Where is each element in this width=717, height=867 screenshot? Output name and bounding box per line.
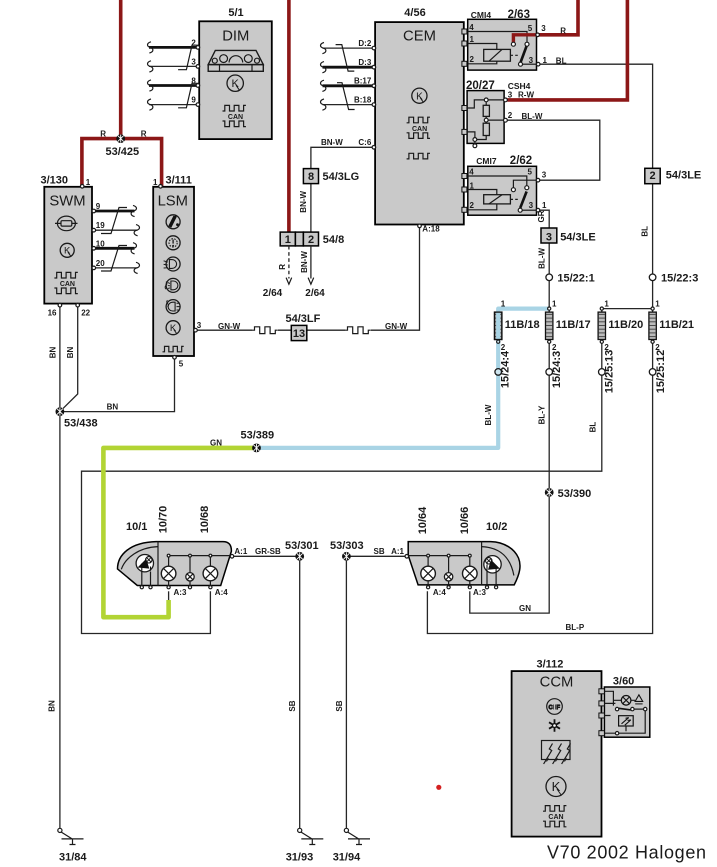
red wire R branch to SWM pin1 and LSM pin1: [82, 139, 162, 188]
wire BN from SWM pin16 through 53/438 to ground 31/84: [59, 307, 61, 828]
svg-text:11B/17: 11B/17: [556, 319, 591, 331]
svg-text:19: 19: [96, 221, 105, 230]
right lamp small pins: [447, 586, 450, 589]
SWM steering wheel icon: [55, 216, 78, 231]
svg-text:3: 3: [191, 57, 196, 66]
svg-text:20: 20: [96, 259, 105, 268]
twisted pair mark CEM D:2/D:3: [336, 45, 355, 72]
svg-text:10/2: 10/2: [486, 521, 507, 533]
svg-text:3/111: 3/111: [166, 175, 192, 187]
svg-text:54/3LG: 54/3LG: [323, 171, 360, 183]
wire to CEM pin D:2: [323, 47, 374, 49]
svg-text:54/8: 54/8: [323, 234, 344, 246]
wire SB junction 53/301 down to ground 31/93: [299, 556, 301, 828]
svg-text:2/62: 2/62: [510, 155, 532, 167]
svg-text:22: 22: [81, 308, 90, 317]
svg-text:54/3LE: 54/3LE: [560, 231, 595, 243]
right lamp pin A:4: [427, 586, 430, 589]
relay 2/63 switch arm: [521, 46, 527, 63]
svg-text:15/22:3: 15/22:3: [661, 273, 698, 285]
LSM pin 3: [194, 328, 198, 332]
arrow to 2/64 right: [308, 278, 314, 285]
relay 2/63 bottom contact to output: [523, 63, 537, 65]
twisted pair mark DIM 8/9: [178, 83, 199, 108]
CEM pin B:18: [372, 103, 376, 107]
connector 15/25:12: [649, 369, 656, 376]
relay 2/63 pin 1 square: [462, 41, 467, 46]
thick wire to CEM pin D:3: [323, 66, 374, 69]
right lamp pin A:3: [468, 586, 471, 589]
DIM instrument cluster icon: [208, 50, 263, 71]
3/60 indicator bulb: [621, 696, 631, 706]
svg-text:GN-W: GN-W: [218, 322, 241, 331]
svg-text:3: 3: [508, 91, 513, 100]
svg-text:2: 2: [470, 201, 475, 210]
svg-text:10/68: 10/68: [199, 506, 211, 534]
DIM pin 3: [196, 65, 200, 69]
twisted pair mark DIM 2/3: [178, 45, 199, 69]
svg-text:9: 9: [96, 202, 101, 211]
svg-text:1: 1: [86, 178, 91, 187]
svg-text:3: 3: [529, 56, 534, 65]
left lamp internal feed wire from A:1: [169, 556, 231, 573]
turn indicator bulb left lamp: [136, 555, 153, 572]
svg-text:2: 2: [604, 343, 609, 352]
svg-text:SB: SB: [374, 547, 385, 556]
relay 2/63 contact circles: [525, 42, 529, 46]
svg-text:3/112: 3/112: [537, 659, 564, 671]
CEM pin D:2: [372, 46, 376, 50]
relay 2/62 output3 wire to NC contact: [513, 180, 536, 188]
SWM CAN symbol: [54, 272, 77, 278]
fuse 3 54/3LE: [541, 228, 596, 244]
thick wire to CEM pin B:17: [323, 84, 374, 87]
svg-text:10/70: 10/70: [158, 506, 170, 534]
ground 31/84: [58, 828, 84, 844]
svg-text:GR: GR: [537, 210, 546, 222]
SWM K diagnostic symbol: [60, 243, 74, 257]
junction 53/389: [252, 444, 261, 453]
svg-text:CEM: CEM: [403, 29, 436, 45]
3/60 switch arm: [619, 708, 631, 710]
LSM rotary switch icon: [166, 236, 180, 250]
svg-text:3: 3: [541, 24, 546, 33]
thick wire to DIM pin 2: [149, 46, 196, 49]
3/60 internal wiring: [604, 691, 645, 733]
20/27 bottom pin: [473, 144, 477, 148]
svg-text:11B/18: 11B/18: [505, 319, 540, 331]
svg-text:3/130: 3/130: [41, 175, 69, 187]
light blue wire BL-W from 11B/17 pin1 node through 11B/18 to junction 53/389: [257, 309, 550, 448]
svg-text:15/22:1: 15/22:1: [557, 273, 594, 285]
wire BL from 11B/20 through 15/25:13 looping to left lamp A:4: [82, 340, 602, 634]
wire GR from relay 2/62 output 1 to fuse 54/3LE(3): [540, 210, 549, 228]
wire stub into 11B/18 top: [497, 309, 499, 313]
svg-text:53/303: 53/303: [330, 540, 364, 552]
wire break squiggle DIM pin3: [148, 61, 153, 72]
wire SB junction 53/303 down to ground 31/94: [345, 556, 347, 828]
wire break squiggle CEM B:18: [321, 99, 326, 110]
wire BN-W fuse 54/3LG to connector 54/8 pin2: [310, 184, 312, 233]
svg-text:2: 2: [308, 234, 314, 246]
20/27 resistor 2: [483, 123, 489, 135]
svg-text:CMI4: CMI4: [471, 10, 492, 20]
right lamp bottom pin stubs: [428, 572, 496, 585]
wire break squiggle DIM pin9: [148, 99, 153, 110]
left lamp pin A:1: [230, 555, 234, 559]
SWM pin 16: [58, 303, 62, 307]
wire GR-SB from left lamp A:1 to junction 53/301: [234, 555, 300, 557]
connector 15/25:13: [599, 369, 606, 376]
svg-text:BL: BL: [556, 56, 567, 65]
svg-text:C: C: [549, 705, 553, 711]
svg-text:53/389: 53/389: [241, 430, 275, 442]
svg-text:8: 8: [191, 77, 196, 86]
svg-text:LSM: LSM: [158, 194, 188, 210]
resistor 11B/20: [598, 312, 605, 339]
svg-text:5: 5: [528, 24, 533, 33]
DIM pin 8: [196, 84, 200, 88]
twisted pair mark CEM B:17/B:18: [337, 83, 355, 110]
CCM AC snowflake icon: [549, 719, 560, 732]
wire BL from fuse 54/3LE(2) down to 15/22:3: [652, 184, 654, 274]
svg-text:CCM: CCM: [540, 674, 574, 690]
svg-text:54/3LF: 54/3LF: [286, 313, 321, 325]
relay 2/62 output pin 1: [536, 208, 540, 212]
wire to DIM pin 9: [149, 104, 196, 106]
right lamp inner front curve: [482, 547, 514, 576]
ground 31/93: [298, 828, 324, 844]
control module SWM 3/130: [41, 175, 106, 318]
svg-text:BN-W: BN-W: [299, 190, 308, 212]
wire GN-W from LSM pin3 to A:18 of CEM: [197, 228, 419, 331]
LSM rear fog lamp icon: [166, 300, 180, 314]
relay 2/62 switch arm: [520, 192, 526, 209]
svg-text:31/94: 31/94: [333, 852, 361, 864]
svg-text:8: 8: [308, 171, 314, 183]
left lamp bottom pin stubs: [142, 572, 211, 586]
fuse 8 54/3LG: [303, 169, 359, 184]
svg-text:A:4: A:4: [433, 588, 446, 597]
headlamp unit right 10/2 with bulbs 10/64 and 10/66: [391, 506, 520, 597]
svg-text:A:18: A:18: [422, 225, 440, 234]
junction 53/425: [116, 134, 125, 143]
relay 2/63 coil circuit: [468, 44, 497, 64]
left lamp internal pin dots: [167, 554, 170, 557]
relay 2/63 pin 4 square: [462, 29, 467, 34]
relay 2/62 coil: [484, 195, 511, 204]
wire BL-W from relay 20/27 pin2 to relay 2/62 output 3: [507, 120, 600, 180]
svg-text:10: 10: [96, 239, 105, 248]
DIM CAN symbol: [223, 105, 246, 111]
wire SB from junction 53/303 to right lamp A:1: [346, 555, 406, 557]
LSM pin 1: [159, 185, 163, 189]
relay 2/62 coil circuit: [468, 190, 497, 210]
wire break squiggle SWM 9: [131, 205, 136, 216]
fuse 2 54/3LE: [645, 168, 701, 183]
svg-text:53/425: 53/425: [106, 146, 140, 158]
SWM pin 22: [76, 303, 80, 307]
relay 2/63 pin 2 square: [462, 61, 467, 66]
red wire R from top to 54/8 pin1: [287, 0, 291, 232]
stub from left lamp A:3 pin to green wire: [168, 591, 170, 600]
svg-text:GR-SB: GR-SB: [255, 547, 281, 556]
svg-text:DIM: DIM: [222, 29, 249, 45]
svg-text:2: 2: [501, 343, 506, 352]
svg-text:BL-W: BL-W: [522, 112, 543, 121]
svg-text:3: 3: [546, 232, 552, 244]
20/27 left pin squares: [462, 106, 467, 111]
wire BN from LSM pin5 to junction 53/438: [62, 359, 175, 412]
connector 15/22:3: [649, 274, 656, 281]
DIM K diagnostic symbol: [227, 75, 243, 91]
svg-text:GN: GN: [519, 604, 531, 613]
svg-text:15/25:12: 15/25:12: [655, 350, 667, 393]
svg-text:4/56: 4/56: [404, 7, 425, 19]
svg-text:1: 1: [470, 35, 475, 44]
square wave symbol on GN-W right: [345, 327, 371, 334]
relay 2/62 pin 1 square: [462, 187, 467, 192]
svg-text:2: 2: [552, 343, 557, 352]
relay 2/62 dashed actuator link: [510, 198, 520, 200]
left lamp small pins: [188, 586, 191, 589]
relay 2/62 internal wire pin4 to switch contact: [468, 176, 527, 186]
svg-text:BL-Y: BL-Y: [537, 405, 546, 424]
3/60 bottom contact: [615, 732, 618, 735]
wire BN from SWM pin22 joining 53/438: [60, 307, 78, 412]
svg-text:2: 2: [650, 170, 656, 182]
wire BN-W to 2/64 right: [310, 246, 312, 279]
svg-text:BN-W: BN-W: [321, 138, 343, 147]
svg-text:5/1: 5/1: [228, 7, 243, 19]
svg-text:4: 4: [469, 23, 474, 32]
wire break squiggle DIM pin8: [148, 80, 153, 91]
relay 2/62 CMI7: [462, 155, 547, 223]
svg-text:1: 1: [655, 300, 660, 309]
connector 15/24:4: [495, 369, 502, 376]
wire BL-W from fuse 54/3LE(3) to connector 15/22:1: [548, 243, 550, 274]
20/27 internal wiring: [467, 100, 504, 144]
svg-text:2: 2: [508, 111, 513, 120]
svg-text:3: 3: [197, 321, 202, 330]
svg-text:53/301: 53/301: [285, 540, 319, 552]
wire to DIM pin 3: [149, 65, 196, 67]
svg-text:BN: BN: [48, 700, 57, 712]
wire from 15/22:1 down to resistor branch node: [548, 281, 550, 313]
SWM pin 19: [92, 228, 96, 232]
svg-text:B:17: B:17: [354, 77, 372, 86]
svg-text:10/1: 10/1: [126, 521, 147, 533]
square wave symbol on GN-W left: [252, 327, 278, 334]
svg-text:11B/21: 11B/21: [659, 319, 694, 331]
control module DIM 5/1: [191, 7, 271, 139]
svg-text:BL-W: BL-W: [484, 404, 493, 425]
3/60 resistor block: [619, 716, 634, 726]
bulb 10/70 low beam: [161, 566, 176, 581]
CEM pin C:6: [372, 146, 376, 150]
red dot artifact: [436, 785, 441, 790]
svg-text:1: 1: [153, 178, 158, 187]
SWM pin 20: [92, 266, 96, 270]
CEM pin B:17: [372, 84, 376, 88]
bulb 10/64 low beam: [421, 566, 436, 581]
LSM pin 5: [173, 356, 177, 360]
CEM pin D:3: [372, 65, 376, 69]
20/27 resistor 1: [483, 105, 489, 116]
DIM pin 9: [196, 103, 200, 107]
svg-text:BL: BL: [640, 226, 649, 237]
right lamp internal feed wire from A:1: [408, 556, 470, 573]
resistor 11B/21: [649, 312, 656, 339]
connector 15/22:1: [546, 274, 553, 281]
left lamp pin A:4: [209, 586, 212, 589]
resistor 11B/18 border over blue wire: [495, 312, 502, 339]
wire break squiggle CEM D:2: [321, 43, 326, 54]
left lamp inner front curve: [121, 547, 158, 570]
LSM square wave symbol: [163, 346, 184, 351]
wire break squiggle CEM D:3: [321, 62, 326, 73]
svg-text:BL-P: BL-P: [566, 623, 585, 632]
relay 2/62 contact circles: [525, 186, 529, 190]
LSM headlight switch icon: [166, 215, 180, 229]
svg-text:A:1: A:1: [234, 547, 247, 556]
dashed wire R to 2/64: [288, 246, 290, 279]
wire BN-W from CEM C:6 to fuse 54/3LG: [311, 147, 375, 168]
green wire GN from junction 53/389 to left lamp A:3: [103, 448, 256, 617]
svg-text:CAN: CAN: [60, 281, 75, 288]
relay 2/63 output pin 1: [536, 62, 540, 66]
junction 53/390: [545, 488, 554, 497]
right lamp internal pin dots: [427, 554, 430, 557]
svg-text:1: 1: [543, 56, 548, 65]
relay 2/63 internal red feed from pin 3: [513, 35, 536, 43]
control module CCM 3/112: [512, 659, 602, 837]
svg-text:2/63: 2/63: [508, 9, 530, 21]
20/27 pin 2: [504, 118, 508, 122]
CCM heater icon: [542, 741, 571, 765]
red wire R from top to junction 53/425: [119, 0, 123, 139]
svg-text:5: 5: [179, 359, 184, 368]
LSM K diagnostic symbol: [166, 321, 180, 335]
svg-text:D:3: D:3: [358, 58, 371, 67]
junction 53/301: [295, 552, 304, 561]
CCM K diagnostic symbol: [546, 777, 566, 797]
small position bulb left: [186, 573, 194, 581]
svg-text:A:1: A:1: [391, 547, 404, 556]
right lamp pin A:1: [405, 555, 409, 559]
svg-text:R: R: [100, 129, 106, 138]
svg-text:53/438: 53/438: [64, 418, 98, 430]
svg-text:SB: SB: [288, 700, 297, 711]
svg-text:5: 5: [528, 168, 533, 177]
SWM pin 10: [92, 247, 96, 251]
thick wire from SWM pin 10: [96, 247, 135, 250]
twisted pair mark SWM 9/19: [101, 208, 127, 234]
svg-text:C:6: C:6: [358, 138, 371, 147]
small position bulb right: [444, 573, 452, 581]
resistor 11B/17: [546, 312, 553, 339]
wire break squiggle CEM B:17: [321, 80, 326, 91]
relay 2/62 pin 4 square: [462, 174, 467, 179]
svg-text:2: 2: [655, 343, 660, 352]
connector 15/24:3: [546, 369, 553, 376]
wire break squiggle SWM 20: [134, 262, 139, 273]
svg-text:SWM: SWM: [49, 194, 85, 210]
left lamp pin A:3: [167, 586, 170, 589]
CCM temperature icon: [547, 699, 563, 715]
wire from 15/22:3 down and branch to 11B/20 and 11B/21: [602, 281, 653, 313]
relay 2/63 dashed actuator link: [510, 54, 520, 56]
CEM K diagnostic symbol: [412, 88, 427, 103]
svg-text:1: 1: [604, 300, 609, 309]
svg-text:B:18: B:18: [354, 95, 372, 104]
svg-text:2/64: 2/64: [263, 288, 283, 299]
svg-text:V70 2002 Halogen: V70 2002 Halogen: [547, 843, 706, 863]
resistor pin nodes: [548, 307, 551, 310]
svg-text:4: 4: [469, 168, 474, 177]
headlamp unit left 10/1 with bulbs 10/70 and 10/68: [118, 506, 248, 597]
svg-text:BL-W: BL-W: [537, 248, 546, 269]
svg-text:1: 1: [552, 300, 557, 309]
svg-text:CAN: CAN: [412, 126, 427, 133]
wire BL from relay 2/63 pin1 to fuse 54/3LE(2): [540, 64, 653, 168]
svg-text:R-W: R-W: [518, 91, 534, 100]
bulb 10/66 high beam: [463, 566, 478, 581]
left lamp divider: [157, 542, 159, 586]
LSM front fog lamp icon: [165, 278, 180, 292]
SWM pin 1: [80, 185, 84, 189]
svg-text:GN: GN: [210, 438, 222, 447]
wire BL-Y from 11B/17 through 15/24:3 and 53/390 to right lamp A:3: [470, 340, 549, 614]
wire to CEM pin B:18: [323, 104, 374, 106]
svg-text:R: R: [141, 129, 147, 138]
svg-text:3/60: 3/60: [613, 675, 634, 687]
svg-text:54/3LE: 54/3LE: [666, 170, 701, 182]
relay 2/63 output pin 3: [536, 33, 540, 37]
relay 2/63 CMI4: [462, 9, 567, 70]
control module CEM 4/56: [354, 7, 464, 234]
20/27 node circles: [484, 98, 488, 102]
svg-text:CAN: CAN: [228, 114, 243, 121]
svg-text:R: R: [560, 27, 566, 36]
svg-text:15/24:4: 15/24:4: [500, 350, 512, 388]
svg-text:CAN: CAN: [548, 814, 563, 821]
3/60 pin squares to CCM: [599, 689, 605, 694]
turn indicator bulb right lamp: [484, 556, 501, 573]
svg-text:R: R: [278, 264, 287, 270]
ground 31/94: [344, 828, 370, 844]
svg-text:11B/20: 11B/20: [608, 319, 643, 331]
svg-text:CSH4: CSH4: [508, 81, 531, 91]
relay 2/62 bottom contact to output: [522, 209, 536, 211]
red wire R from relay 2/63 pin3 up to top: [537, 0, 579, 35]
svg-text:GN-W: GN-W: [385, 322, 408, 331]
svg-text:A:4: A:4: [215, 588, 228, 597]
svg-text:16: 16: [48, 308, 57, 317]
CEM pin A:18: [418, 224, 422, 228]
thick wire to DIM pin 8: [149, 84, 196, 87]
red wire R-W from top to relay 20/27 pin3: [507, 0, 627, 100]
svg-text:20/27: 20/27: [466, 80, 495, 92]
svg-text:3: 3: [542, 171, 547, 180]
relay 2/62 output pin 3: [536, 178, 540, 182]
CEM CAN symbol: [407, 117, 430, 123]
svg-text:BN: BN: [66, 347, 75, 359]
svg-text:10/64: 10/64: [417, 506, 429, 534]
relay 2/63 coil: [484, 49, 511, 61]
svg-text:15/24:3: 15/24:3: [551, 351, 563, 388]
fuse 13 54/3LF: [286, 313, 321, 341]
